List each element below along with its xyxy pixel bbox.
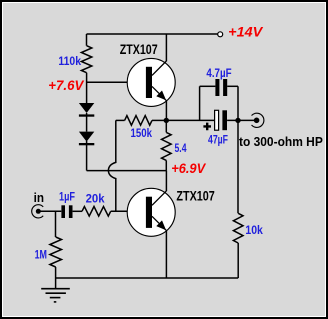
svg-text:+14V: +14V (228, 25, 263, 40)
svg-text:+7.6V: +7.6V (48, 78, 84, 93)
svg-text:47µF: 47µF (208, 133, 228, 147)
svg-text:1µF: 1µF (59, 189, 75, 203)
svg-text:5.4: 5.4 (175, 141, 187, 155)
svg-text:1M: 1M (35, 248, 47, 262)
svg-text:10k: 10k (245, 223, 263, 237)
svg-text:ZTX107: ZTX107 (176, 188, 214, 203)
svg-text:20k: 20k (86, 192, 105, 206)
svg-text:150k: 150k (131, 126, 153, 140)
svg-text:ZTX107: ZTX107 (120, 42, 158, 57)
svg-text:to 300-ohm HP: to 300-ohm HP (239, 134, 323, 149)
svg-text:4.7µF: 4.7µF (206, 66, 231, 80)
svg-text:110k: 110k (58, 54, 81, 68)
svg-text:in: in (34, 190, 45, 205)
svg-text:+6.9V: +6.9V (171, 161, 206, 176)
